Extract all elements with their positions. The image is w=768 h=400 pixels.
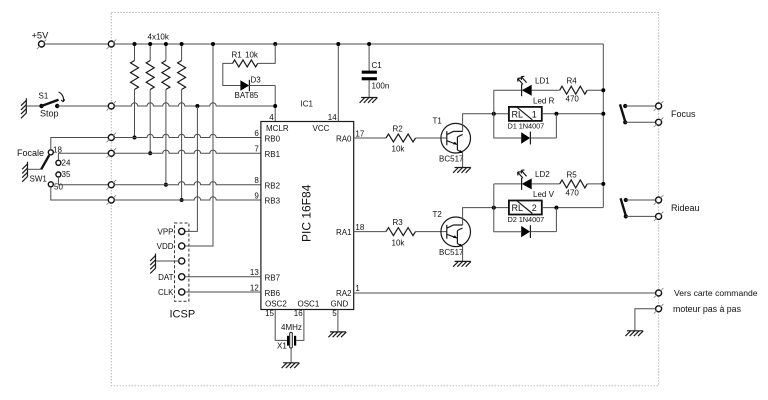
svg-text:MCLR: MCLR (266, 124, 289, 133)
resistor RN4 (178, 61, 186, 90)
svg-text:D1 1N4007: D1 1N4007 (508, 122, 545, 131)
terminal Focus B (654, 118, 664, 128)
svg-text:9: 9 (254, 191, 259, 200)
svg-text:RB0: RB0 (265, 135, 281, 144)
svg-text:R3: R3 (393, 218, 404, 227)
wire GND pin 5 (337, 310, 339, 332)
svg-text:X1: X1 (277, 341, 287, 350)
wire SW1-24 to RB1 row (58, 153, 108, 160)
svg-text:18: 18 (355, 223, 364, 232)
wire Stop row with hops (114, 103, 275, 106)
resistor R3 10k (386, 218, 416, 247)
wire RA0 to R2 (354, 137, 386, 139)
wire moteur terminal to ground (635, 309, 656, 331)
terminal Vers carte commande (654, 288, 664, 298)
svg-text:RB2: RB2 (265, 182, 281, 191)
svg-text:BC517: BC517 (439, 248, 464, 257)
wire VCC pin 14 (337, 44, 339, 122)
diode D2 1N4007 (521, 208, 556, 238)
svg-text:Focus: Focus (671, 109, 696, 119)
diode D3 BAT85 (235, 76, 276, 101)
svg-text:14: 14 (328, 113, 337, 122)
node T1 collector / RL1 left (492, 112, 496, 116)
wire RL2 right to rail (542, 207, 604, 209)
wire RB0 row with hops (114, 134, 261, 137)
relay contact K1 (Focus) (620, 104, 656, 125)
ground C1 (360, 98, 378, 103)
svg-text:Led V: Led V (533, 190, 555, 199)
wire X1 to ground (290, 348, 292, 363)
svg-text:17: 17 (355, 130, 364, 139)
svg-text:moteur pas à pas: moteur pas à pas (673, 304, 742, 314)
wire T2 emitter (462, 247, 464, 262)
wire RL2 left branch (494, 184, 521, 232)
svg-text:RB7: RB7 (265, 274, 281, 283)
wire ground to S1 (26, 105, 41, 107)
wire R5 to +5V rail (587, 183, 603, 185)
ground IC GND (328, 332, 346, 337)
ground ICSP (150, 254, 178, 274)
LED LD1 (518, 76, 555, 105)
wire SW1-50 to RB3 row (51, 187, 109, 200)
resistor R5 470 (560, 170, 588, 197)
svg-text:15: 15 (265, 309, 274, 318)
svg-text:D3: D3 (251, 76, 262, 85)
svg-text:DAT: DAT (158, 273, 174, 282)
svg-text:4MHz: 4MHz (281, 323, 302, 332)
svg-text:RA1: RA1 (336, 228, 352, 237)
svg-text:LD1: LD1 (535, 77, 550, 86)
switch S1 ground (21, 98, 26, 118)
ground X1 (282, 363, 300, 368)
svg-text:VPP: VPP (157, 227, 173, 236)
wire LED LD1 row (494, 89, 560, 91)
wire DAT to RB7 (185, 276, 261, 278)
svg-text:RB3: RB3 (265, 197, 281, 206)
node T2 collector / RL2 left (492, 206, 496, 210)
wire RA1 to R3 (354, 231, 386, 233)
svg-text:R1: R1 (232, 51, 243, 60)
svg-text:BC517: BC517 (439, 155, 464, 164)
node: border connector top rail (107, 40, 117, 50)
svg-text:24: 24 (62, 159, 71, 168)
+5V terminal (32, 30, 50, 49)
wire +5V rail (114, 43, 603, 45)
svg-text:R5: R5 (567, 170, 578, 179)
svg-text:BAT85: BAT85 (235, 91, 259, 100)
svg-text:Focale: Focale (17, 148, 44, 158)
svg-text:2: 2 (532, 203, 537, 213)
svg-text:470: 470 (566, 188, 580, 197)
node: border connector RB1 row (107, 148, 117, 158)
svg-text:+5V: +5V (32, 30, 50, 40)
wire S1 to border (57, 105, 108, 107)
svg-text:4x10k: 4x10k (148, 33, 170, 42)
svg-text:VDD: VDD (157, 242, 174, 251)
svg-text:T1: T1 (433, 117, 443, 126)
svg-text:1: 1 (532, 109, 537, 119)
svg-text:5: 5 (332, 309, 337, 318)
svg-text:ICSP: ICSP (170, 309, 196, 321)
ground T2 (453, 261, 471, 266)
terminal moteur pas a pas (654, 304, 664, 314)
wire RB1 row with hops (114, 150, 261, 153)
junction VPP on Stop row (195, 104, 199, 108)
ground T1 (453, 168, 471, 173)
resistor RN3 (162, 61, 170, 90)
LED LD2 (518, 170, 555, 199)
svg-text:IC1: IC1 (301, 100, 314, 109)
ground moteur (625, 331, 643, 336)
svg-text:10k: 10k (392, 145, 406, 154)
svg-text:7: 7 (254, 144, 259, 153)
wire R3 to T2 base (416, 231, 447, 233)
svg-text:R2: R2 (393, 124, 404, 133)
svg-text:4: 4 (269, 113, 274, 122)
wire R2 to T1 base (416, 137, 447, 139)
svg-text:12: 12 (250, 283, 259, 292)
svg-text:RB6: RB6 (265, 289, 281, 298)
svg-text:D2 1N4007: D2 1N4007 (508, 215, 545, 224)
wire RA2 to terminal (354, 292, 656, 294)
wire T1 collector (463, 114, 509, 132)
relay contact K2 (Rideau) (621, 198, 656, 219)
terminal Rideau B (654, 212, 664, 222)
svg-text:35: 35 (62, 170, 71, 179)
svg-text:C1: C1 (372, 61, 383, 70)
svg-text:100n: 100n (372, 81, 390, 90)
wire LED LD2 row (494, 183, 560, 185)
svg-text:RB1: RB1 (265, 150, 281, 159)
svg-text:Rideau: Rideau (671, 203, 700, 213)
svg-text:8: 8 (254, 176, 259, 185)
wire ground to SW1 pivot (28, 168, 42, 170)
svg-text:R4: R4 (567, 77, 578, 86)
svg-text:RA2: RA2 (336, 289, 352, 298)
resistor R2 10k (386, 124, 416, 153)
svg-text:T2: T2 (433, 210, 443, 219)
transistor T1 BC517 (433, 117, 471, 164)
diode D1 1N4007 (521, 114, 556, 145)
wire T1 emitter (462, 153, 464, 168)
wire RB3 row with hops (114, 197, 261, 200)
capacitor C1 100n (362, 42, 390, 98)
terminal Focus A (654, 101, 664, 111)
svg-text:VCC: VCC (313, 124, 330, 133)
resistor RN2 (146, 61, 154, 90)
svg-text:RA0: RA0 (336, 135, 352, 144)
ICSP connector (157, 223, 196, 321)
wire R4 to +5V rail (587, 89, 603, 91)
dashed enclosure border (111, 13, 658, 386)
switch SW1 rotary (17, 145, 71, 191)
node: border connector RB2 row (107, 180, 117, 190)
svg-text:16: 16 (294, 309, 303, 318)
wire VPP vertical to ICSP (185, 106, 198, 231)
wire +5V to border (44, 43, 108, 45)
resistor R1 10k (223, 42, 277, 86)
switch SW1 ground (22, 162, 27, 182)
svg-text:10k: 10k (392, 238, 406, 247)
svg-text:GND: GND (331, 300, 349, 309)
crystal X1 4MHz (277, 323, 302, 350)
wire SW1-35 to RB2 row (58, 177, 108, 185)
svg-text:LD2: LD2 (535, 170, 550, 179)
svg-text:OSC1: OSC1 (298, 300, 320, 309)
resistor RN1 (131, 61, 139, 90)
svg-text:OSC2: OSC2 (265, 300, 287, 309)
svg-text:Led R: Led R (533, 97, 555, 106)
node: border connector RB3 row (107, 195, 117, 205)
wire T2 collector (463, 208, 509, 225)
svg-text:S1: S1 (39, 91, 49, 100)
wire OSC1 pin 16 (296, 310, 304, 341)
svg-text:PIC 16F84: PIC 16F84 (300, 184, 314, 242)
svg-text:13: 13 (250, 268, 259, 277)
wire CLK to RB6 (185, 291, 261, 293)
svg-text:Vers carte commande: Vers carte commande (674, 288, 758, 298)
svg-text:1: 1 (355, 284, 360, 293)
svg-text:10k: 10k (245, 51, 259, 60)
wire +5V rail drop right (602, 44, 604, 208)
wire MCLR net to IC pin 4 (274, 86, 276, 122)
svg-text:Stop: Stop (40, 109, 59, 119)
transistor T2 BC517 (433, 210, 471, 257)
terminal Rideau A (654, 195, 664, 205)
node: border connector Stop row (107, 101, 117, 111)
svg-text:CLK: CLK (158, 288, 174, 297)
relay coil RL2 (508, 201, 545, 225)
svg-text:RL: RL (512, 109, 524, 119)
wire SW1-18 to RB0 row (51, 138, 109, 150)
switch S1 (39, 91, 65, 118)
IC1 PIC 16F84 (250, 100, 365, 319)
relay coil RL1 (508, 107, 545, 131)
wire OSC2 pin 15 (275, 310, 287, 341)
svg-text:6: 6 (254, 129, 259, 138)
wire RL1 right to rail (542, 113, 604, 115)
resistor R4 470 (560, 77, 588, 104)
node: border connector RB0 row (107, 133, 117, 143)
svg-text:SW1: SW1 (30, 175, 48, 184)
svg-text:RL: RL (512, 203, 524, 213)
svg-text:470: 470 (566, 95, 580, 104)
wire VDD vertical to ICSP (185, 44, 213, 246)
wire RB2 row with hops (114, 182, 261, 185)
wire RL1 left branch (494, 90, 521, 138)
